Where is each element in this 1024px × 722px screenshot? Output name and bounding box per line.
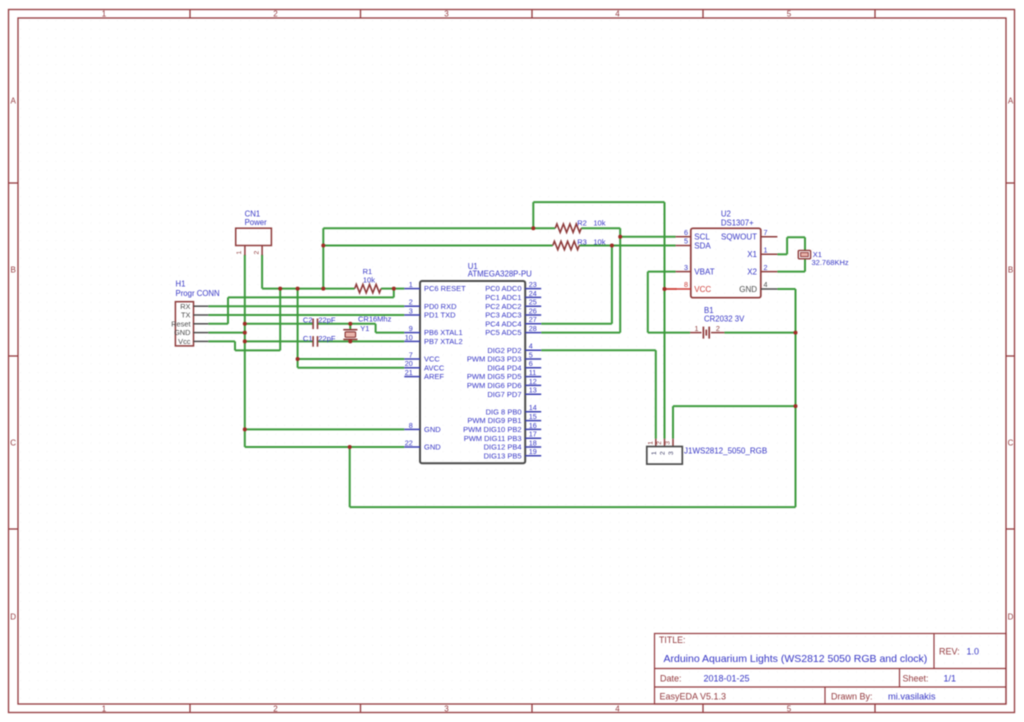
svg-text:RX: RX [180,302,190,311]
svg-text:8: 8 [409,421,413,430]
svg-text:PC1 ADC1: PC1 ADC1 [485,293,521,302]
svg-text:PWM DIG5 PD5: PWM DIG5 PD5 [467,372,522,381]
svg-text:23: 23 [529,280,537,289]
svg-text:PC4 ADC4: PC4 ADC4 [485,319,521,328]
svg-text:18: 18 [529,438,537,447]
svg-text:PWM DIG9 PB1: PWM DIG9 PB1 [467,416,521,425]
svg-text:PWM DIG3 PD3: PWM DIG3 PD3 [467,355,522,364]
svg-text:DIG2 PD2: DIG2 PD2 [487,346,521,355]
svg-text:12: 12 [529,377,537,386]
svg-text:GND: GND [424,425,441,434]
svg-text:19: 19 [529,447,537,456]
svg-text:6: 6 [529,359,533,368]
svg-text:27: 27 [529,315,537,324]
svg-text:SDA: SDA [694,241,711,250]
svg-text:Drawn By:: Drawn By: [831,692,873,702]
svg-text:5: 5 [787,704,792,713]
svg-text:1: 1 [764,246,768,255]
svg-text:4: 4 [615,10,620,19]
svg-text:17: 17 [529,430,537,439]
svg-text:PB7 XTAL2: PB7 XTAL2 [424,337,463,346]
svg-text:22: 22 [405,438,413,447]
svg-text:DIG 8 PB0: DIG 8 PB0 [486,407,522,416]
svg-text:25: 25 [529,298,537,307]
svg-text:10k: 10k [593,219,605,228]
svg-text:2: 2 [716,324,720,333]
svg-text:2: 2 [273,10,278,19]
svg-text:PD1 TXD: PD1 TXD [424,311,456,320]
svg-text:11: 11 [529,368,536,377]
svg-text:DIG4 PD4: DIG4 PD4 [487,363,521,372]
svg-text:20: 20 [405,359,413,368]
svg-text:10k: 10k [593,237,605,246]
svg-text:2: 2 [409,298,413,307]
svg-text:TX: TX [181,311,191,320]
svg-text:D: D [1008,613,1014,622]
svg-text:C: C [1008,439,1014,448]
svg-text:PB6 XTAL1: PB6 XTAL1 [424,328,463,337]
svg-text:DIG13 PB5: DIG13 PB5 [484,451,522,460]
svg-text:REV:: REV: [939,647,960,657]
svg-text:CN1: CN1 [245,209,261,218]
svg-text:B1: B1 [704,306,714,315]
svg-text:Vcc: Vcc [178,337,191,346]
svg-text:1: 1 [651,451,658,455]
svg-text:2: 2 [273,704,278,713]
svg-text:DIG12 PB4: DIG12 PB4 [484,443,522,452]
svg-text:28: 28 [529,324,537,333]
svg-text:PD0 RXD: PD0 RXD [424,302,457,311]
svg-text:3: 3 [444,704,449,713]
svg-text:C: C [10,439,16,448]
svg-text:8: 8 [684,280,688,289]
svg-text:6: 6 [684,228,688,237]
svg-text:EasyEDA V5.1.3: EasyEDA V5.1.3 [660,692,727,702]
svg-text:GND: GND [739,285,757,294]
svg-text:Power: Power [245,218,268,227]
svg-text:R3: R3 [577,237,587,246]
svg-text:X1: X1 [747,250,757,259]
svg-text:GND: GND [174,328,190,337]
svg-text:C2: C2 [303,315,313,324]
svg-text:16: 16 [529,421,537,430]
svg-text:14: 14 [529,403,537,412]
svg-text:3: 3 [668,451,675,455]
svg-text:J1WS2812_5050_RGB: J1WS2812_5050_RGB [684,447,767,456]
svg-text:R2: R2 [577,219,587,228]
svg-text:X2: X2 [747,267,757,276]
svg-text:7: 7 [409,350,413,359]
svg-text:10k: 10k [363,275,375,284]
svg-text:2: 2 [656,441,663,445]
svg-text:1.0: 1.0 [967,647,980,657]
svg-text:26: 26 [529,306,537,315]
svg-text:VCC: VCC [424,355,440,364]
svg-text:5: 5 [787,10,792,19]
svg-text:ATMEGA328P-PU: ATMEGA328P-PU [468,270,532,279]
svg-text:4: 4 [529,342,533,351]
svg-text:3: 3 [684,263,688,272]
svg-text:AVCC: AVCC [424,363,445,372]
svg-text:32.768KHz: 32.768KHz [812,258,849,267]
svg-text:15: 15 [529,412,537,421]
svg-text:Sheet:: Sheet: [903,674,929,684]
svg-text:PC3 ADC3: PC3 ADC3 [485,311,521,320]
svg-text:21: 21 [405,368,413,377]
svg-text:SCL: SCL [694,233,710,242]
svg-text:A: A [1008,97,1014,106]
svg-text:A: A [11,97,17,106]
svg-text:VBAT: VBAT [694,267,714,276]
svg-text:3: 3 [665,441,672,445]
svg-text:10: 10 [405,333,413,342]
svg-text:7: 7 [764,228,768,237]
svg-text:Arduino Aquarium Lights (WS281: Arduino Aquarium Lights (WS2812 5050 RGB… [664,653,928,665]
svg-text:GND: GND [424,443,441,452]
svg-text:24: 24 [529,289,537,298]
svg-text:5: 5 [529,350,533,359]
svg-text:PWM DIG6 PD6: PWM DIG6 PD6 [467,381,522,390]
svg-text:Date:: Date: [660,674,682,684]
svg-text:2: 2 [659,451,666,455]
svg-text:DS1307+: DS1307+ [721,218,754,227]
svg-text:4: 4 [615,704,620,713]
svg-text:mi.vasilakis: mi.vasilakis [888,692,936,702]
svg-text:B: B [11,266,16,275]
svg-text:13: 13 [529,386,537,395]
svg-text:PC0 ADC0: PC0 ADC0 [485,284,521,293]
svg-text:AREF: AREF [424,372,444,381]
svg-text:4: 4 [764,280,768,289]
svg-text:DIG7 PD7: DIG7 PD7 [487,390,521,399]
svg-text:3: 3 [409,306,413,315]
svg-text:H1: H1 [176,279,186,288]
svg-text:CR2032 3V: CR2032 3V [704,315,745,324]
svg-text:9: 9 [409,324,413,333]
svg-text:1: 1 [409,280,413,289]
svg-text:SQWOUT: SQWOUT [721,233,757,242]
svg-text:2018-01-25: 2018-01-25 [704,674,750,684]
svg-text:D: D [10,613,16,622]
svg-text:PWM DIG10 PB2: PWM DIG10 PB2 [463,425,521,434]
svg-text:1: 1 [102,704,107,713]
svg-text:PWM DIG11 PB3: PWM DIG11 PB3 [464,434,522,443]
svg-text:CR16Mhz: CR16Mhz [358,314,392,323]
svg-text:Reset: Reset [171,319,190,328]
svg-text:1: 1 [648,441,655,445]
svg-text:PC6 RESET: PC6 RESET [424,284,466,293]
svg-text:3: 3 [444,10,449,19]
svg-text:22pF: 22pF [318,315,336,324]
svg-text:2: 2 [764,263,768,272]
svg-text:22pF: 22pF [318,334,336,343]
svg-text:PC2 ADC2: PC2 ADC2 [485,302,521,311]
svg-text:1: 1 [102,10,107,19]
svg-text:TITLE:: TITLE: [659,635,685,645]
svg-text:C1: C1 [303,334,313,343]
svg-text:1: 1 [695,324,699,333]
svg-text:1: 1 [236,251,243,255]
svg-text:Y1: Y1 [360,324,369,333]
svg-text:PC5 ADC5: PC5 ADC5 [485,328,521,337]
svg-text:1/1: 1/1 [944,674,957,684]
svg-text:Progr CONN: Progr CONN [176,289,220,298]
svg-text:U2: U2 [721,210,731,219]
svg-text:VCC: VCC [694,285,711,294]
svg-text:2: 2 [253,251,260,255]
svg-text:5: 5 [684,237,688,246]
svg-text:B: B [1008,266,1013,275]
